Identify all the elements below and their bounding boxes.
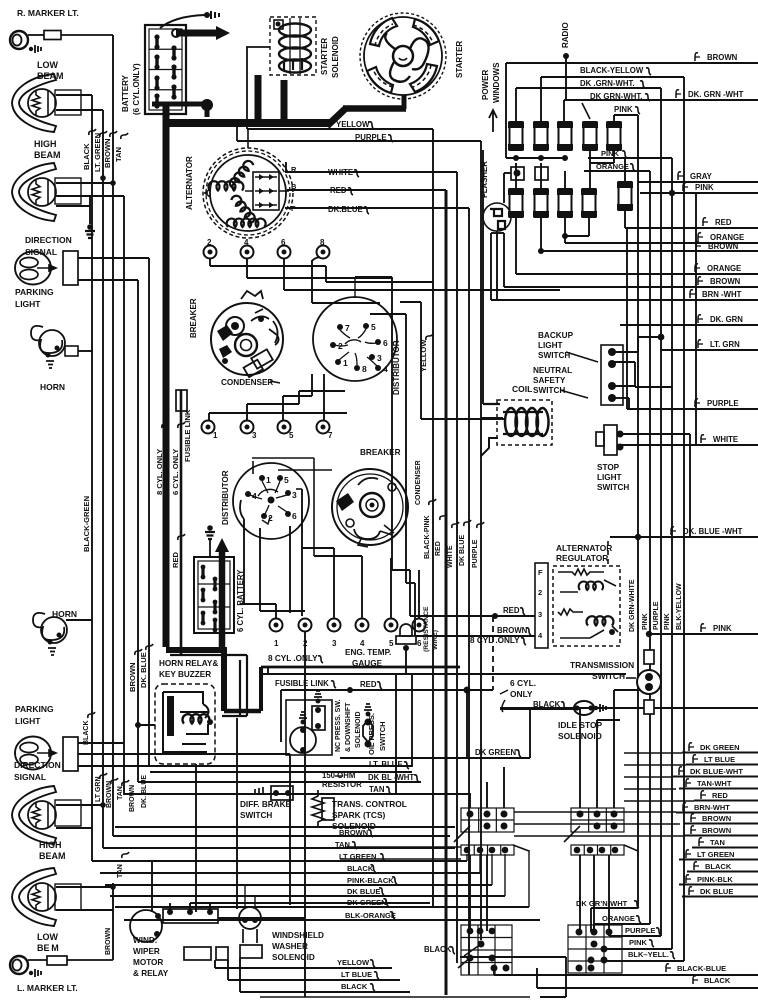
svg-text:WIRE): WIRE)	[432, 630, 439, 650]
svg-text:SWITCH: SWITCH	[538, 351, 570, 360]
svg-text:KEY BUZZER: KEY BUZZER	[159, 670, 211, 679]
svg-text:(6 CYL.ONLY): (6 CYL.ONLY)	[132, 63, 141, 115]
svg-text:DK GR’N-WHT: DK GR’N-WHT	[576, 899, 628, 908]
svg-text:ONLY: ONLY	[510, 689, 533, 699]
svg-text:BE M: BE M	[37, 943, 59, 953]
svg-text:7: 7	[328, 431, 333, 440]
svg-text:RED: RED	[503, 606, 520, 615]
svg-text:PARKING: PARKING	[15, 287, 54, 297]
svg-text:DK GREEN: DK GREEN	[347, 898, 387, 907]
svg-text:WINDOWS: WINDOWS	[492, 62, 501, 103]
svg-text:6: 6	[417, 639, 422, 648]
svg-text:8 CYL. ONLY: 8 CYL. ONLY	[155, 449, 164, 495]
svg-text:BLACK: BLACK	[341, 982, 368, 991]
svg-text:BROWN: BROWN	[105, 928, 112, 955]
svg-text:6: 6	[292, 511, 297, 521]
svg-text:BATTERY: BATTERY	[121, 74, 130, 112]
svg-text:LOW: LOW	[37, 60, 58, 70]
svg-text:ORANGE: ORANGE	[596, 162, 629, 171]
svg-text:DIFF. BRAKE: DIFF. BRAKE	[240, 800, 291, 809]
svg-text:PINK: PINK	[629, 938, 648, 947]
svg-text:WASHER: WASHER	[272, 942, 308, 951]
svg-text:B: B	[291, 182, 297, 191]
svg-text:8: 8	[362, 364, 367, 374]
svg-text:6 CYL. BATTERY: 6 CYL. BATTERY	[236, 569, 245, 632]
svg-text:LIGHT: LIGHT	[597, 473, 622, 482]
svg-text:YELLOW: YELLOW	[336, 120, 370, 129]
svg-text:SWITCH: SWITCH	[592, 671, 625, 681]
svg-text:PURPLE: PURPLE	[472, 539, 479, 568]
svg-text:BREAKER: BREAKER	[360, 448, 401, 457]
svg-text:TRANSMISSION: TRANSMISSION	[570, 660, 634, 670]
svg-text:DK BLUE: DK BLUE	[700, 887, 733, 896]
svg-text:BLK-YELLOW: BLK-YELLOW	[676, 583, 683, 630]
svg-text:TAN: TAN	[710, 838, 725, 847]
svg-text:8 CYL .ONLY: 8 CYL .ONLY	[470, 636, 520, 645]
svg-text:FUSIBLE LINK: FUSIBLE LINK	[275, 679, 329, 688]
svg-text:LIGHT: LIGHT	[15, 716, 41, 726]
svg-text:ALTERNATOR: ALTERNATOR	[185, 156, 194, 210]
svg-text:HORN RELAY&: HORN RELAY&	[159, 659, 218, 668]
svg-text:BLACK: BLACK	[82, 143, 91, 170]
svg-text:PARKING: PARKING	[15, 704, 54, 714]
svg-text:BLACK-YELLOW: BLACK-YELLOW	[580, 66, 644, 75]
svg-text:1: 1	[343, 358, 348, 368]
svg-text:CONDENSER: CONDENSER	[415, 460, 422, 505]
svg-text:PINK: PINK	[664, 613, 671, 630]
svg-text:LT. BLUE: LT. BLUE	[369, 760, 403, 769]
svg-text:DK .GRN-WHT.: DK .GRN-WHT.	[580, 79, 635, 88]
svg-text:BLK-ORANGE: BLK-ORANGE	[345, 911, 396, 920]
svg-text:BLACK-PINK: BLACK-PINK	[424, 515, 431, 559]
svg-text:SWITCH: SWITCH	[240, 811, 272, 820]
svg-text:3: 3	[538, 610, 542, 619]
svg-text:DK. GRN -WHT: DK. GRN -WHT	[688, 90, 744, 99]
svg-text:TAN: TAN	[335, 840, 350, 849]
svg-text:TRANS. CONTROL: TRANS. CONTROL	[332, 799, 407, 809]
svg-text:WIPER: WIPER	[133, 947, 160, 956]
svg-text:DK GREEN: DK GREEN	[700, 743, 740, 752]
svg-text:FUSIBLE LINK: FUSIBLE LINK	[183, 409, 192, 462]
svg-text:COIL: COIL	[512, 384, 532, 394]
svg-text:PINK: PINK	[713, 624, 732, 633]
svg-text:PINK: PINK	[601, 149, 620, 158]
svg-text:HIGH: HIGH	[39, 840, 62, 850]
svg-text:YELLOW: YELLOW	[419, 339, 428, 372]
svg-text:DK GREEN: DK GREEN	[475, 748, 517, 757]
svg-text:LT. GRN: LT. GRN	[710, 340, 740, 349]
svg-text:BLACK: BLACK	[347, 864, 374, 873]
svg-text:PURPLE: PURPLE	[653, 601, 660, 630]
svg-text:DIRECTION: DIRECTION	[14, 760, 61, 770]
svg-text:MOTOR: MOTOR	[133, 958, 163, 967]
svg-text:F: F	[291, 204, 296, 213]
svg-text:(RESISTANCE: (RESISTANCE	[423, 606, 430, 652]
svg-text:RED: RED	[360, 680, 377, 689]
svg-text:PURPLE: PURPLE	[355, 133, 387, 142]
svg-text:LIGHT: LIGHT	[15, 299, 41, 309]
svg-text:DK BLUE: DK BLUE	[347, 887, 380, 896]
svg-text:3: 3	[252, 431, 257, 440]
svg-text:DK BLUE: DK BLUE	[459, 535, 466, 566]
svg-text:8: 8	[320, 238, 325, 247]
svg-text:2: 2	[303, 639, 308, 648]
svg-text:& RELAY: & RELAY	[133, 969, 169, 978]
svg-text:RED: RED	[715, 218, 732, 227]
svg-text:BRN-WHT: BRN-WHT	[694, 803, 730, 812]
svg-text:SWITCH: SWITCH	[597, 483, 629, 492]
svg-text:LT GREEN: LT GREEN	[697, 850, 734, 859]
svg-text:BLACK: BLACK	[533, 700, 561, 709]
svg-text:BROWN: BROWN	[707, 53, 738, 62]
svg-text:STOP: STOP	[597, 463, 620, 472]
svg-text:ORANGE: ORANGE	[710, 233, 744, 242]
svg-text:DK. GRN: DK. GRN	[710, 315, 743, 324]
svg-text:LT BLUE: LT BLUE	[704, 755, 735, 764]
svg-text:LT GRN: LT GRN	[95, 776, 102, 802]
svg-text:150 OHM: 150 OHM	[322, 771, 355, 780]
svg-text:BRN -WHT: BRN -WHT	[702, 290, 742, 299]
svg-text:DISTRIBUTOR: DISTRIBUTOR	[392, 340, 401, 395]
svg-text:PINK: PINK	[642, 613, 649, 630]
svg-text:RED: RED	[435, 541, 442, 556]
svg-text:F: F	[538, 568, 543, 577]
svg-text:BROWN: BROWN	[106, 781, 113, 808]
svg-text:4: 4	[383, 364, 388, 374]
svg-text:ENG. TEMP.: ENG. TEMP.	[345, 648, 391, 657]
svg-text:HORN: HORN	[40, 382, 65, 392]
svg-text:3: 3	[332, 639, 337, 648]
svg-text:DK BL -WHT: DK BL -WHT	[368, 773, 414, 782]
svg-text:R. MARKER LT.: R. MARKER LT.	[17, 8, 79, 18]
svg-text:BACKUP: BACKUP	[538, 331, 574, 340]
svg-text:BREAKER: BREAKER	[189, 298, 198, 338]
svg-text:OIL PRESS.: OIL PRESS.	[367, 713, 376, 755]
svg-text:1: 1	[266, 475, 271, 485]
svg-text:PURPLE: PURPLE	[707, 399, 739, 408]
svg-text:REGULATOR: REGULATOR	[556, 553, 608, 563]
svg-text:6: 6	[281, 238, 286, 247]
svg-text:SOLENOID: SOLENOID	[558, 731, 602, 741]
svg-text:6 CYL.: 6 CYL.	[510, 678, 536, 688]
svg-text:6: 6	[383, 338, 388, 348]
svg-text:SAFETY: SAFETY	[533, 376, 566, 385]
svg-text:SWITCH: SWITCH	[533, 386, 565, 395]
svg-text:STARTER: STARTER	[455, 41, 464, 78]
svg-text:NEUTRAL: NEUTRAL	[533, 366, 572, 375]
svg-text:ORANGE: ORANGE	[602, 914, 635, 923]
svg-text:STARTER: STARTER	[320, 38, 329, 75]
svg-text:BEAM: BEAM	[34, 150, 61, 160]
svg-text:GRAY: GRAY	[690, 172, 713, 181]
svg-text:RED: RED	[330, 186, 347, 195]
svg-text:LOW: LOW	[37, 932, 58, 942]
svg-text:L. MARKER LT.: L. MARKER LT.	[17, 983, 78, 993]
svg-text:2: 2	[268, 513, 273, 523]
svg-text:BEAM: BEAM	[37, 71, 64, 81]
svg-text:POWER: POWER	[481, 70, 490, 100]
svg-text:LT GREEN: LT GREEN	[339, 852, 376, 861]
svg-text:WHITE: WHITE	[713, 435, 738, 444]
svg-text:PINK: PINK	[695, 183, 714, 192]
svg-text:BROWN: BROWN	[497, 626, 528, 635]
svg-text:NC PRESS. SW.: NC PRESS. SW.	[335, 699, 342, 752]
svg-text:2: 2	[538, 588, 542, 597]
svg-text:WINDSHIELD: WINDSHIELD	[272, 931, 324, 940]
svg-text:FLASHER: FLASHER	[480, 161, 489, 198]
svg-text:LIGHT: LIGHT	[538, 341, 563, 350]
svg-text:7: 7	[345, 323, 350, 333]
svg-text:6 CYL. ONLY: 6 CYL. ONLY	[171, 449, 180, 495]
svg-text:PINK-BLK: PINK-BLK	[697, 875, 733, 884]
svg-text:BROWN: BROWN	[708, 242, 739, 251]
svg-text:BROWN: BROWN	[129, 785, 136, 812]
svg-text:BROWN: BROWN	[702, 814, 731, 823]
svg-text:TAN: TAN	[114, 147, 123, 162]
svg-text:RESISTOR: RESISTOR	[322, 780, 362, 789]
svg-text:TAN: TAN	[117, 786, 124, 800]
svg-text:BLK–YELL.: BLK–YELL.	[628, 950, 669, 959]
svg-text:BROWN: BROWN	[103, 138, 112, 168]
svg-text:SOLENOID: SOLENOID	[272, 953, 315, 962]
svg-text:DK GRN-WHITE: DK GRN-WHITE	[629, 579, 636, 632]
svg-text:ORANGE: ORANGE	[707, 264, 741, 273]
svg-text:BROWN: BROWN	[339, 828, 368, 837]
svg-text:LT BLUE: LT BLUE	[341, 970, 372, 979]
svg-text:2: 2	[207, 238, 212, 247]
svg-text:5: 5	[284, 475, 289, 485]
svg-text:WHITE: WHITE	[447, 545, 454, 568]
svg-text:BROWN: BROWN	[710, 277, 741, 286]
svg-text:LT. GREEN: LT. GREEN	[93, 133, 102, 172]
svg-text:PINK: PINK	[614, 105, 633, 114]
svg-text:TAN: TAN	[117, 864, 124, 878]
svg-text:R: R	[291, 165, 297, 174]
svg-text:& DOWNSHIFT: & DOWNSHIFT	[345, 702, 352, 752]
svg-text:WIND.: WIND.	[133, 936, 157, 945]
svg-text:HORN: HORN	[52, 609, 77, 619]
svg-text:ALTERNATOR: ALTERNATOR	[556, 543, 612, 553]
svg-text:DK. BLUE: DK. BLUE	[141, 775, 148, 808]
svg-text:4: 4	[244, 238, 249, 247]
svg-text:4: 4	[360, 639, 365, 648]
svg-text:IDLE STOP: IDLE STOP	[558, 720, 602, 730]
svg-text:DIRECTION: DIRECTION	[25, 235, 72, 245]
svg-text:3: 3	[377, 353, 382, 363]
svg-text:PURPLE: PURPLE	[625, 926, 655, 935]
svg-text:4: 4	[252, 491, 257, 501]
svg-text:YELLOW: YELLOW	[337, 958, 370, 967]
svg-text:3: 3	[292, 490, 297, 500]
svg-text:5: 5	[371, 322, 376, 332]
svg-text:BROWN: BROWN	[128, 662, 137, 692]
svg-text:CONDENSER: CONDENSER	[221, 378, 273, 387]
svg-text:TAN: TAN	[369, 785, 385, 794]
svg-text:DK. BLUE: DK. BLUE	[139, 652, 148, 688]
svg-text:SOLENOID: SOLENOID	[331, 36, 340, 78]
svg-text:BLACK-BLUE: BLACK-BLUE	[677, 964, 726, 973]
svg-text:DK BLUE-WHT: DK BLUE-WHT	[690, 767, 743, 776]
svg-text:BLACK: BLACK	[424, 945, 452, 954]
svg-text:RED: RED	[171, 551, 180, 568]
svg-text:GAUGE: GAUGE	[352, 659, 383, 668]
svg-text:TAN-WHT: TAN-WHT	[697, 779, 732, 788]
svg-text:BLACK-GREEN: BLACK-GREEN	[82, 496, 91, 552]
svg-text:PINK-BLACK: PINK-BLACK	[347, 876, 394, 885]
svg-text:BROWN: BROWN	[702, 826, 731, 835]
svg-text:8 CYL .ONLY: 8 CYL .ONLY	[268, 654, 318, 663]
svg-text:RED: RED	[712, 791, 728, 800]
svg-text:DISTRIBUTOR: DISTRIBUTOR	[221, 470, 230, 525]
svg-text:1: 1	[213, 431, 218, 440]
svg-text:BEAM: BEAM	[39, 851, 66, 861]
svg-text:HIGH: HIGH	[34, 139, 57, 149]
svg-text:BLACK: BLACK	[704, 976, 731, 985]
svg-text:DK.BLUE: DK.BLUE	[328, 205, 363, 214]
svg-text:SIGNAL: SIGNAL	[25, 247, 57, 257]
svg-text:SIGNAL: SIGNAL	[14, 772, 46, 782]
svg-text:BLACK: BLACK	[83, 721, 90, 746]
svg-text:DK GRN-WHT.: DK GRN-WHT.	[590, 92, 642, 101]
svg-text:5: 5	[289, 431, 294, 440]
svg-text:SOLENOID: SOLENOID	[355, 711, 362, 748]
svg-text:BLACK: BLACK	[705, 862, 732, 871]
svg-text:RADIO: RADIO	[561, 22, 570, 48]
svg-text:2: 2	[338, 341, 343, 351]
svg-text:5: 5	[389, 639, 394, 648]
svg-text:SPARK (TCS): SPARK (TCS)	[332, 810, 386, 820]
svg-text:DK. BLUE -WHT: DK. BLUE -WHT	[683, 527, 743, 536]
svg-text:WHITE: WHITE	[328, 168, 353, 177]
svg-text:SWITCH: SWITCH	[378, 721, 387, 751]
svg-text:1: 1	[274, 639, 279, 648]
